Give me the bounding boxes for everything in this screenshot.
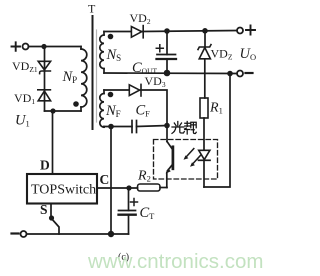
light arrows xyxy=(184,149,201,167)
wire feedback return xyxy=(110,127,112,235)
capacitor CT xyxy=(119,188,138,234)
svg-text:T: T xyxy=(88,2,96,16)
node ground junction xyxy=(108,231,114,237)
wire output bottom rail xyxy=(104,72,237,75)
winding NP xyxy=(81,47,87,112)
wire NS top xyxy=(104,31,131,33)
node zener top junction xyxy=(202,28,208,34)
svg-text:D: D xyxy=(40,158,50,173)
transformer core xyxy=(93,16,97,129)
LED D xyxy=(199,150,211,187)
node NF phase dot xyxy=(108,92,114,98)
zener VDZ xyxy=(198,31,211,98)
wire S pin xyxy=(51,204,59,235)
node input junction xyxy=(41,44,46,49)
node C junction xyxy=(126,185,131,190)
node Cout top junction xyxy=(164,28,170,34)
output + terminal xyxy=(237,26,255,35)
diode VD2 xyxy=(131,26,143,38)
input + terminal xyxy=(12,42,29,51)
capacitor COUT xyxy=(156,31,176,73)
winding NF xyxy=(100,90,104,127)
node LED return junction xyxy=(227,71,233,77)
wire between diodes xyxy=(44,71,46,91)
node D junction xyxy=(50,108,55,113)
svg-text:www.cntronics.com: www.cntronics.com xyxy=(87,250,263,273)
output - terminal xyxy=(237,71,253,77)
svg-text:TOPSwitch: TOPSwitch xyxy=(31,183,96,198)
node S kink dot xyxy=(49,215,54,220)
label optocoupler (guang ou) xyxy=(172,122,196,135)
node NS phase dot xyxy=(108,34,114,40)
capacitor CF xyxy=(104,121,167,133)
wire input top xyxy=(29,46,82,48)
wire NF top xyxy=(104,89,129,91)
node feedback junction xyxy=(164,123,170,129)
wire primary bottom xyxy=(45,110,82,112)
diode VD3 xyxy=(129,84,141,96)
wire bottom rail xyxy=(27,233,129,235)
svg-text:S: S xyxy=(40,202,48,217)
optocoupler dashed box xyxy=(154,140,218,180)
wire C pin xyxy=(97,187,138,189)
resistor R2 xyxy=(138,184,168,191)
TOPSwitch U1 box xyxy=(27,174,97,204)
node Cout bottom junction xyxy=(164,70,171,77)
wire D pin xyxy=(52,111,54,174)
node NF bottom junction xyxy=(108,124,114,130)
phototransistor Q xyxy=(166,126,173,188)
svg-text:C: C xyxy=(100,172,110,187)
diode VD1 xyxy=(38,90,51,101)
zener VDZ1 xyxy=(38,61,50,73)
wire clamp string top xyxy=(44,47,46,72)
input - terminal xyxy=(12,231,27,237)
resistor R1 xyxy=(200,98,208,150)
wire output top rail xyxy=(142,31,237,32)
winding NS xyxy=(100,32,104,74)
wire clamp bottom xyxy=(44,90,46,111)
node NP phase dot xyxy=(73,101,79,107)
wire LED return xyxy=(204,74,230,188)
wire VD3 to node xyxy=(141,90,168,125)
